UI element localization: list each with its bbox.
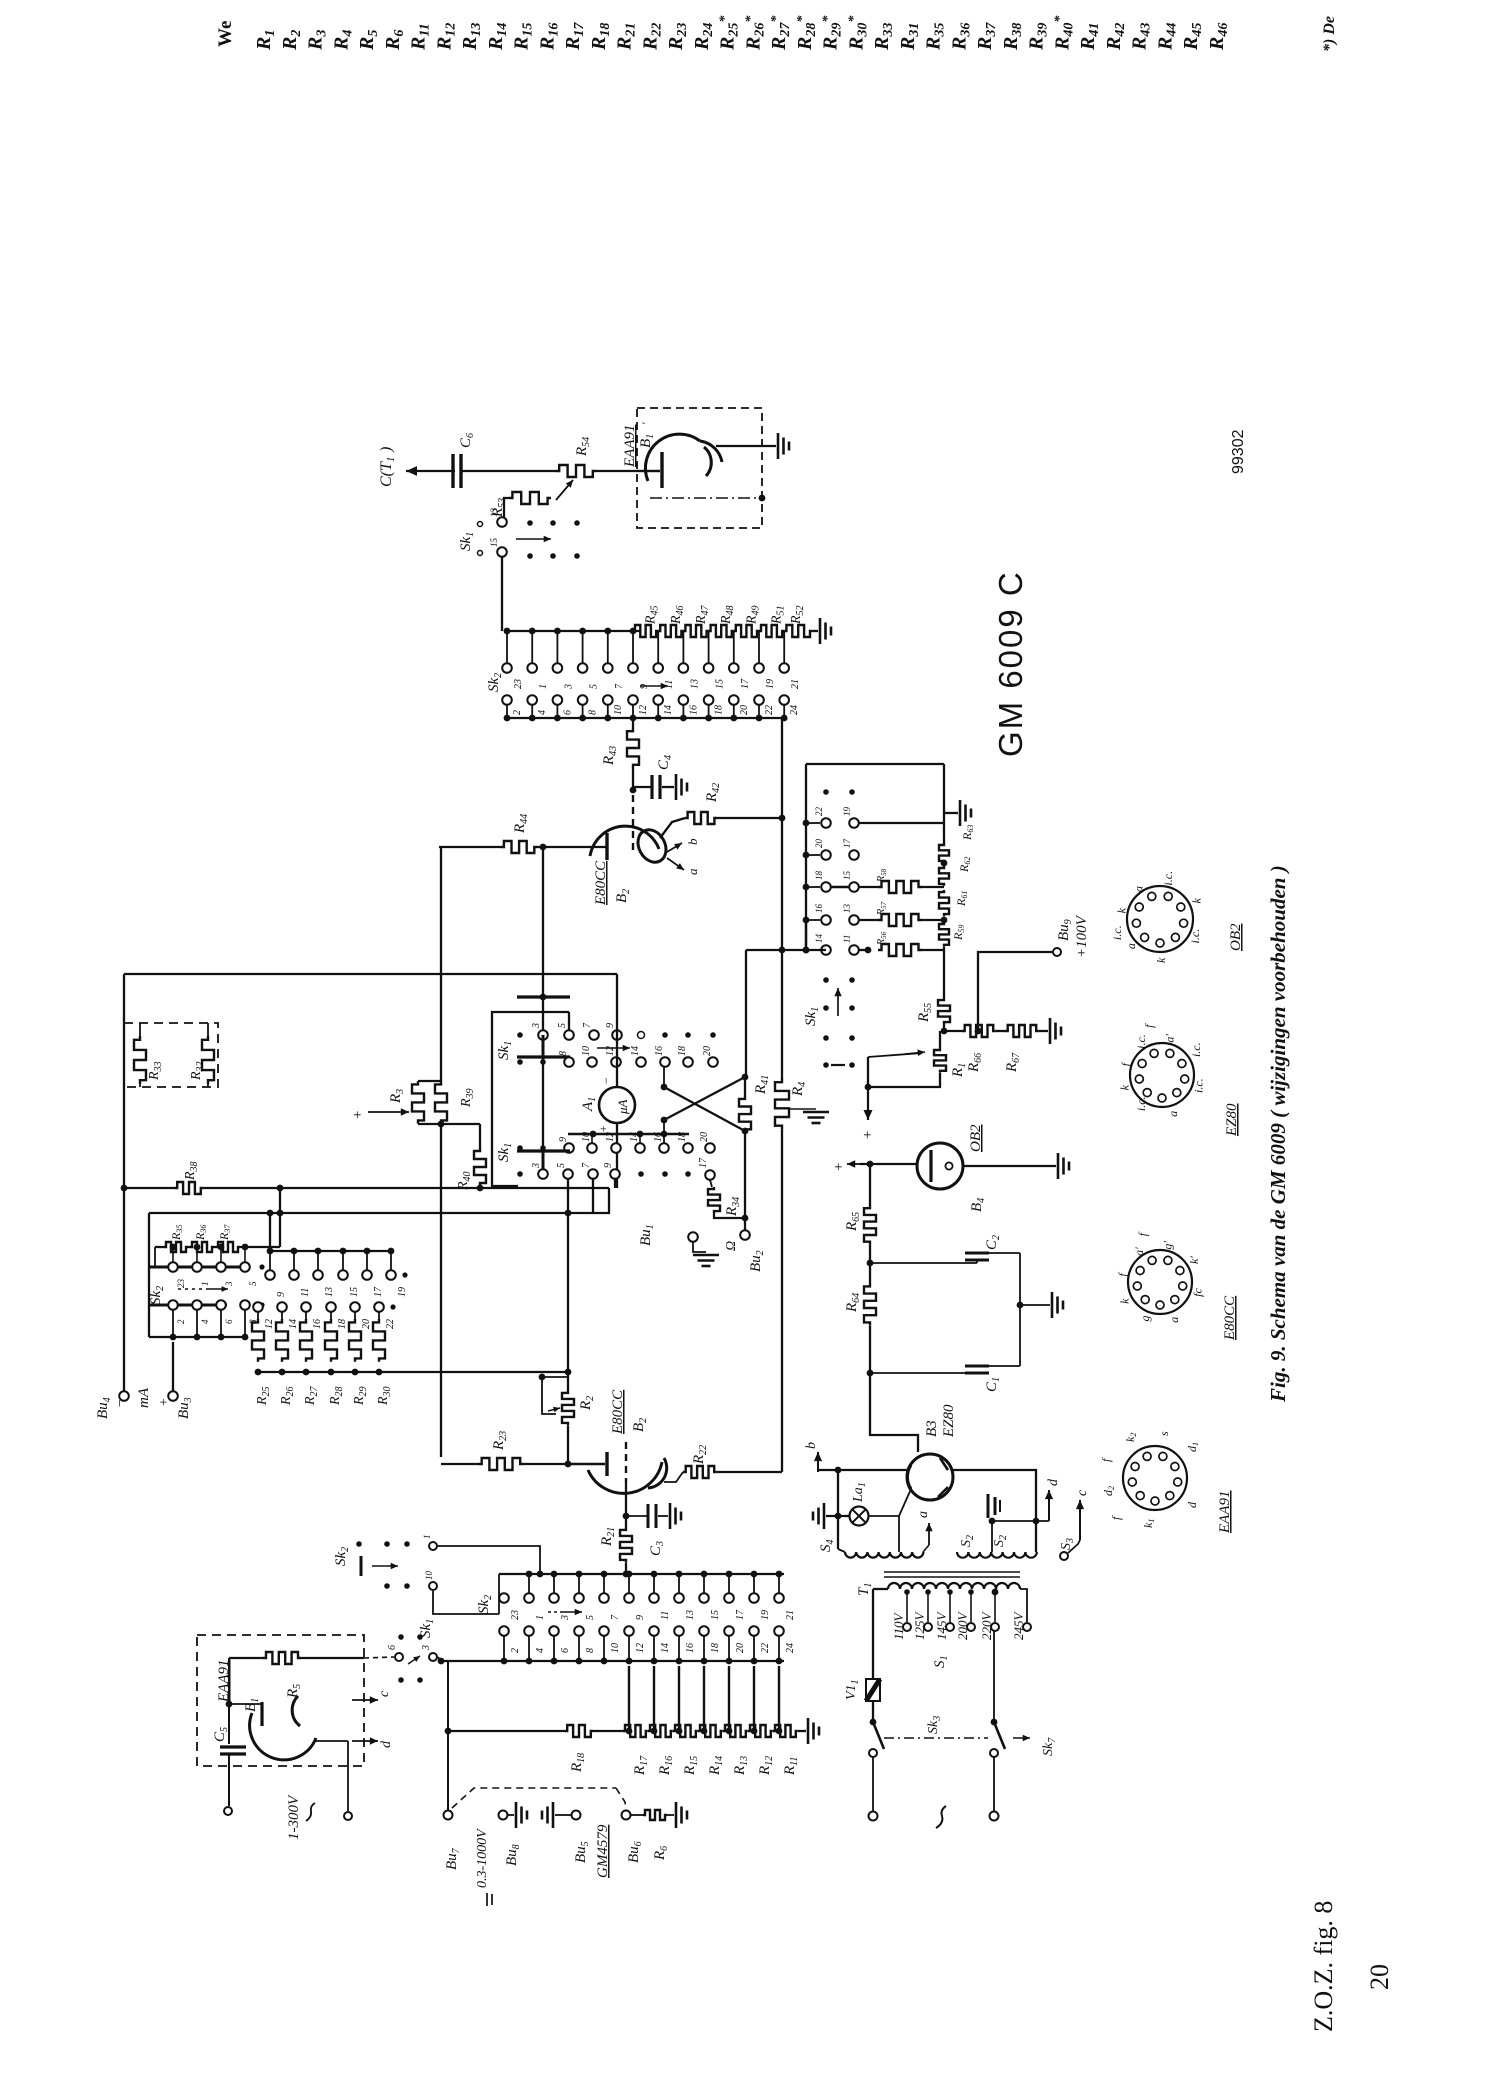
svg-text:10: 10 [581, 1046, 592, 1056]
wire R25 bank upper bus [269, 1213, 271, 1251]
svg-text:16: 16 [312, 1319, 323, 1329]
svg-text:18: 18 [677, 1046, 688, 1056]
svg-text:14: 14 [288, 1319, 299, 1329]
svg-text:i.c.: i.c. [1134, 1034, 1148, 1049]
svg-text:3: 3 [224, 1281, 234, 1287]
switch Sk3 mains blade [869, 1716, 943, 1757]
svg-text:17: 17 [735, 1609, 746, 1620]
switch Sk1 right grid contacts [803, 807, 859, 955]
svg-text:i.c.: i.c. [1189, 1042, 1203, 1057]
svg-text:18: 18 [677, 1132, 688, 1142]
switch Sk2 left bank row1 [150, 1247, 265, 1288]
svg-text:22: 22 [814, 807, 824, 817]
resistor R38 [121, 1161, 609, 1194]
svg-text:5: 5 [557, 1023, 568, 1028]
wire meter stem [616, 974, 618, 1087]
svg-text:18: 18 [710, 1643, 721, 1653]
svg-text:GM 6009 C: GM 6009 C [992, 570, 1029, 757]
wire R25 bank lower bus to R2 [258, 1371, 568, 1373]
wire link x=280 [279, 1188, 281, 1247]
resistor R23 [441, 1431, 568, 1470]
svg-text:E80CC: E80CC [1222, 1295, 1238, 1341]
capacitor C6 [453, 433, 476, 488]
tube B1 EAA91 dashed enclosure [197, 1635, 364, 1766]
terminal Bu8 with ground [499, 1811, 508, 1820]
svg-text:18: 18 [337, 1319, 348, 1329]
svg-text:16: 16 [653, 1132, 664, 1142]
svg-text:3: 3 [563, 684, 574, 690]
wire Sk1 to bottom bus [438, 1657, 441, 1661]
tube B4 OB2 regulator [917, 1124, 987, 1212]
svg-text:220V: 220V [979, 1611, 994, 1641]
ground after R11 [807, 1718, 810, 1744]
svg-text:10: 10 [581, 1132, 592, 1142]
wire 220V tap to Sk7 [993, 1631, 995, 1722]
switch S3 and arrow c [1059, 1489, 1090, 1560]
wire thick bar above row4 [517, 1149, 570, 1152]
resistor R1 potentiometer [934, 1031, 968, 1078]
svg-text:9: 9 [558, 1137, 569, 1142]
wire thick bar above row1 [517, 995, 570, 998]
transformer primary taps [903, 1589, 1031, 1631]
capacitor C2 [870, 1235, 1002, 1263]
wire rail to R41 top [745, 950, 747, 1076]
resistor R54 (potentiometer) [556, 437, 596, 477]
fuse V11 [844, 1589, 880, 1719]
wire S2 tap bus to d and c [992, 1520, 1049, 1522]
resistors R45 R46 R47 R48 R49 R51 inline on bus [633, 604, 787, 637]
svg-text:14: 14 [814, 934, 824, 944]
arrow c from B1 [301, 1658, 392, 1704]
svg-text:*) De: *) De [1321, 16, 1338, 52]
wire mains terminals [872, 1757, 874, 1811]
arrows a b at tube B2 [667, 838, 700, 875]
resistor R4 [775, 1078, 808, 1130]
switch Sk1 right grid dots above [823, 789, 829, 795]
svg-text:23: 23 [513, 679, 524, 689]
svg-text:16: 16 [654, 1046, 665, 1056]
capacitor C4 and ground [633, 755, 687, 800]
svg-text:20: 20 [814, 839, 824, 849]
svg-text:−: − [599, 1077, 613, 1085]
resistors R17 R16 R15 R14 R13 R12 R11 chain [623, 1725, 806, 1776]
wire switch coupling dash-dot [884, 1737, 988, 1739]
resistor R3 potentiometer [388, 1081, 441, 1124]
switch Sk2 auxiliary position dots [333, 1535, 437, 1591]
svg-text:E80CC: E80CC [593, 860, 609, 906]
svg-text:19: 19 [765, 679, 776, 689]
resistor R64 [844, 1283, 876, 1376]
svg-text:c: c [377, 1690, 392, 1697]
svg-text:a: a [685, 868, 700, 875]
tube B2' E80CC lower half envelope [588, 1452, 667, 1493]
resistor R44 [501, 814, 537, 853]
svg-text:OB2: OB2 [968, 1124, 984, 1152]
svg-text:16: 16 [685, 1643, 696, 1653]
tube socket diagram E80CC [1128, 1250, 1192, 1314]
svg-text:μA: μA [615, 1099, 630, 1115]
svg-text:+: + [350, 1110, 366, 1120]
wire R3 bottom to R40 [441, 1123, 480, 1125]
svg-text:20: 20 [361, 1319, 372, 1329]
wire R54 to tube B1/EAA91 box [596, 470, 660, 472]
svg-text:20: 20 [735, 1643, 746, 1653]
svg-text:2: 2 [176, 1319, 186, 1324]
svg-text:17: 17 [373, 1286, 384, 1297]
resistor R2 potentiometer [539, 1369, 596, 1426]
svg-text:14: 14 [663, 705, 674, 715]
switch Sk2 bottom row1 contacts [499, 1571, 796, 1621]
tube B3 EZ80 rectifier [907, 1404, 957, 1500]
svg-text:200V: 200V [955, 1611, 970, 1641]
resistor R55 [916, 998, 950, 1034]
tube socket diagram EZ80 [1130, 1043, 1194, 1107]
svg-text:EAA91: EAA91 [1217, 1491, 1233, 1535]
svg-text:15: 15 [489, 538, 499, 548]
resistor R5 [229, 1652, 303, 1699]
svg-text:17: 17 [740, 678, 751, 689]
resistor R40 [456, 1124, 486, 1191]
wire thick bar between rows [517, 1055, 570, 1058]
wire bus y=1213 [149, 1188, 609, 1213]
svg-text:2: 2 [510, 1648, 521, 1653]
tube B1' envelope and electrodes [645, 434, 722, 488]
svg-text:E80CC: E80CC [610, 1389, 626, 1435]
wire crossing diagonals [661, 1066, 749, 1143]
wire R1 wiper [868, 1053, 922, 1057]
svg-text:23: 23 [510, 1610, 521, 1620]
terminal Bu2 and ohm label [724, 1230, 766, 1272]
svg-text:22: 22 [385, 1319, 396, 1329]
svg-text:20: 20 [1365, 1964, 1394, 1990]
svg-text:24: 24 [789, 705, 800, 715]
svg-text:k: k [1154, 957, 1168, 963]
svg-text:21: 21 [785, 1610, 796, 1620]
svg-text:6: 6 [562, 710, 573, 715]
tube B2 E80CC envelope [590, 825, 671, 867]
svg-text:Ω: Ω [724, 1241, 739, 1251]
svg-text:k′: k′ [1187, 1256, 1201, 1264]
capacitor to chassis above S2 [988, 1494, 1000, 1552]
switch Sk1 right position dots [803, 977, 855, 1068]
resistor R52 and ground [784, 605, 812, 637]
svg-text:3: 3 [421, 1645, 432, 1651]
tube B1' EAA91 dashed enclosure [637, 408, 762, 528]
svg-text:4: 4 [200, 1319, 210, 1324]
svg-text:12: 12 [638, 705, 649, 715]
svg-text:6: 6 [224, 1319, 234, 1324]
resistors R35 R36 R37 [155, 1224, 280, 1252]
svg-text:15: 15 [710, 1610, 721, 1620]
svg-text:i.c.: i.c. [1134, 1096, 1148, 1111]
resistor R33 [134, 1023, 164, 1087]
svg-text:12: 12 [605, 1132, 616, 1142]
resistor R21 [599, 1527, 632, 1578]
switch Sk2 upper bus [504, 630, 640, 632]
ground after R67 [1049, 1018, 1052, 1044]
wire row4 drops to lower section [567, 1179, 569, 1372]
wire R2 to cathode [567, 1426, 569, 1464]
svg-text:+: + [860, 1130, 876, 1140]
svg-text:12: 12 [264, 1319, 275, 1329]
wire output arrow [406, 470, 455, 472]
svg-text:11: 11 [300, 1288, 311, 1297]
wire grid dashed B2' [625, 1442, 627, 1482]
svg-text:13: 13 [489, 508, 499, 518]
wire right grid top bus [806, 763, 944, 765]
wire lamp to winding [868, 1515, 899, 1517]
svg-text:19: 19 [397, 1287, 408, 1297]
wire Sk2 aux to bank [437, 1546, 540, 1574]
svg-text:4: 4 [535, 1648, 546, 1653]
resistor R41 [739, 1075, 771, 1132]
ground and terminal Bu5 [552, 1802, 555, 1828]
svg-text:d: d [379, 1740, 394, 1748]
svg-text:Fig. 9. Schema van de GM 6009: Fig. 9. Schema van de GM 6009 ( wijzigin… [1266, 865, 1290, 1403]
svg-text:18: 18 [814, 871, 824, 881]
wire anode dash-dot return [650, 497, 762, 499]
switch Sk2 row 2 contacts [502, 695, 800, 721]
svg-text:10: 10 [610, 1643, 621, 1653]
wire B2 anode to R42 to vertical rail [660, 818, 685, 838]
wire box to ground [716, 445, 776, 447]
dashed test-volt box [452, 1788, 626, 1810]
svg-text:2: 2 [512, 710, 523, 715]
svg-text:): ) [378, 447, 395, 453]
resistors R33 R32 dashed battery box [124, 1023, 218, 1087]
svg-text:18: 18 [714, 705, 725, 715]
svg-text:+100V: +100V [1074, 914, 1090, 958]
capacitor C3 and ground [626, 1503, 681, 1556]
svg-text:GM4579: GM4579 [595, 1824, 611, 1878]
svg-text:s: s [1157, 1431, 1171, 1436]
wire R4 ground tap and ground [789, 1108, 816, 1110]
svg-text:Z.O.Z. fig. 8: Z.O.Z. fig. 8 [1309, 1901, 1338, 2032]
wire grid bottom row to rails [746, 949, 826, 951]
wire left bank vertical and lower bus [148, 1213, 150, 1337]
switch Sk2 left bank row2 [150, 1300, 265, 1324]
svg-text:5: 5 [556, 1163, 567, 1168]
arrow a tap [916, 1511, 933, 1552]
terminal Bu3 plus and mA label [136, 1342, 194, 1419]
tube socket diagram OB2 [1127, 886, 1193, 952]
svg-text:11: 11 [660, 1611, 671, 1620]
svg-text:d: d [1046, 1478, 1061, 1486]
wire risers from row2 to chain [626, 1666, 783, 1734]
resistor R66 [944, 1025, 996, 1073]
resistor R57 [859, 901, 944, 926]
tube B2 cathode bar [605, 833, 608, 860]
svg-text:15: 15 [842, 871, 852, 881]
svg-text:1-300V: 1-300V [286, 1794, 302, 1840]
svg-text:k: k [1190, 898, 1204, 904]
svg-text:20: 20 [702, 1046, 713, 1056]
resistor R56 [859, 931, 944, 956]
svg-text:125V: 125V [912, 1611, 927, 1641]
svg-text:8: 8 [558, 1051, 569, 1056]
svg-text:4: 4 [537, 710, 548, 715]
terminal test lead left [224, 1807, 232, 1815]
svg-text:c: c [1075, 1489, 1090, 1496]
capacitor C5 [212, 1658, 246, 1806]
wire R53 wiper arrow to R54 [556, 480, 573, 500]
svg-text:6: 6 [560, 1648, 571, 1653]
component value table column labels (adjacent page) [215, 15, 1338, 52]
svg-text:a: a [916, 1511, 931, 1518]
svg-text:0.3-1000V: 0.3-1000V [475, 1828, 490, 1888]
svg-text:15: 15 [715, 679, 726, 689]
svg-text:11: 11 [664, 680, 675, 689]
switch Sk2 bottom wiper arrow [548, 1611, 560, 1613]
svg-text:14: 14 [629, 1132, 640, 1142]
winding S4 [818, 1540, 923, 1558]
resistor chain R59 R61 R62 R63 vertical [939, 823, 975, 998]
svg-text:1: 1 [200, 1282, 210, 1287]
switch contacts row (9-19) above R25 bank [265, 1248, 408, 1297]
switch Sk2 bottom row2 contacts [499, 1626, 796, 1664]
wire plus bus under meter [568, 1133, 689, 1136]
wire rail from R44 down to Sk1 rows [542, 847, 544, 1176]
svg-text:9: 9 [635, 1615, 646, 1620]
switch Sk1 center bracket [492, 1012, 543, 1186]
svg-text:14: 14 [630, 1046, 641, 1056]
switch Sk1 center row4 contacts [517, 1157, 715, 1180]
resistor R67 [975, 1025, 1048, 1073]
terminal Bu1 with ground [638, 1224, 719, 1266]
svg-text:EZ80: EZ80 [941, 1404, 957, 1438]
wire rail from R44-left down to R23 [440, 847, 442, 1081]
svg-text:+: + [157, 1398, 172, 1407]
resistor R18 [448, 1725, 623, 1773]
svg-text:22: 22 [764, 705, 775, 715]
svg-text:23: 23 [176, 1279, 186, 1289]
wire long horizontal bus y=974 [124, 973, 617, 975]
svg-text:i.c.: i.c. [1188, 929, 1202, 944]
svg-text:a: a [1167, 1317, 1181, 1323]
terminal Bu4 minus [95, 1391, 129, 1419]
wire Bu7 riser [447, 1661, 449, 1731]
terminal Bu6 and resistor R6 [622, 1811, 631, 1820]
svg-text:mA: mA [136, 1387, 152, 1408]
capacitor C1 [870, 1366, 1002, 1392]
svg-text:24: 24 [785, 1643, 796, 1653]
svg-text:3: 3 [531, 1163, 542, 1169]
meter A1 microammeter [580, 1077, 635, 1133]
svg-text:10: 10 [424, 1571, 434, 1581]
wire R41 to Bu2 [744, 1131, 746, 1230]
svg-text:11: 11 [842, 935, 852, 943]
svg-text:20: 20 [699, 1132, 710, 1142]
svg-text:−: − [113, 1399, 128, 1408]
svg-text:20: 20 [739, 705, 750, 715]
switch Sk1 center row1 contacts [517, 1022, 716, 1040]
svg-text:5: 5 [585, 1615, 596, 1620]
wire B4 to ground [963, 1165, 1056, 1167]
switch Sk1 upper contacts (13,15) [458, 508, 507, 557]
svg-text:a: a [1132, 886, 1146, 892]
svg-text:17: 17 [698, 1157, 709, 1168]
wire R44 leads [439, 846, 501, 848]
svg-text:5: 5 [248, 1281, 258, 1286]
switch Sk2 row 1 contacts with taps [502, 628, 801, 690]
wire rail x=124 left edge down to Bu4 [123, 974, 125, 1391]
wire tube cathode to winding [898, 1516, 900, 1552]
svg-text:fc: fc [1191, 1288, 1205, 1297]
svg-text:a′: a′ [1163, 1034, 1177, 1043]
wire chain to ground [943, 764, 945, 823]
switch Sk2 wiper arrow [640, 685, 668, 687]
arrow d output [1045, 1478, 1061, 1521]
wire C6 to R54 [461, 470, 556, 472]
switch Sk1 center row2 contacts [517, 1046, 718, 1067]
svg-text:12: 12 [605, 1046, 616, 1056]
switch Sk1 bottom-left contact group [364, 1619, 504, 1683]
svg-text:1: 1 [535, 1615, 546, 1620]
resistor R53 [490, 492, 551, 518]
resistor R65 [844, 1164, 876, 1245]
svg-text:13: 13 [689, 679, 700, 689]
svg-text:8: 8 [588, 710, 599, 715]
svg-text:We: We [215, 21, 236, 47]
resistor R58 [859, 868, 944, 893]
svg-text:i.c.: i.c. [1192, 1078, 1206, 1093]
resistor R22 [664, 1445, 782, 1482]
svg-text:14: 14 [660, 1643, 671, 1653]
svg-text:8: 8 [585, 1648, 596, 1653]
svg-text:19: 19 [760, 1610, 771, 1620]
wire tube right to S2 [953, 1470, 1036, 1552]
svg-text:13: 13 [685, 1610, 696, 1620]
svg-text:21: 21 [790, 679, 801, 689]
wire b to tube and down to S4 [818, 1469, 907, 1471]
svg-text:13: 13 [842, 904, 852, 914]
svg-text:b: b [685, 838, 700, 845]
arrow b output [804, 1442, 822, 1472]
svg-text:17: 17 [842, 839, 852, 849]
svg-text:a: a [1124, 943, 1138, 949]
svg-text:′: ′ [639, 422, 653, 425]
resistor R43 [601, 718, 639, 793]
svg-text:d: d [1185, 1501, 1199, 1508]
svg-text:k: k [1118, 1298, 1132, 1304]
svg-text:1: 1 [538, 684, 549, 689]
mains AC symbol [936, 1806, 946, 1828]
svg-text:+: + [831, 1162, 847, 1172]
switch Sk2 lower bus [507, 717, 784, 719]
svg-text:k: k [1114, 907, 1128, 913]
arrow d from B1 [316, 1737, 394, 1820]
wire R1 bottom loop and + arrow down [868, 1073, 940, 1087]
resistors R25 R26 R27 R28 R29 R30 [252, 1312, 393, 1406]
tube socket diagram EAA91 [1123, 1446, 1187, 1510]
switch Sk7 blade [990, 1719, 1058, 1757]
ground at tube B1' [777, 433, 780, 459]
svg-text:6: 6 [387, 1645, 398, 1650]
wire B+ down to EZ80 [870, 1373, 918, 1452]
svg-text:EAA91: EAA91 [622, 425, 638, 469]
svg-text:99302: 99302 [1230, 429, 1247, 474]
resistor R39 inline on rail [435, 1081, 476, 1124]
svg-text:9: 9 [605, 1023, 616, 1028]
wire cathode lead into box [637, 470, 660, 472]
svg-text:b: b [804, 1442, 819, 1449]
wire grid row 823 to chain top [859, 822, 944, 824]
svg-text:13: 13 [324, 1287, 335, 1297]
svg-text:a: a [1166, 1111, 1180, 1117]
lamp La1 [850, 1482, 869, 1525]
svg-text:22: 22 [760, 1643, 771, 1653]
svg-text:a′: a′ [1132, 1247, 1146, 1256]
